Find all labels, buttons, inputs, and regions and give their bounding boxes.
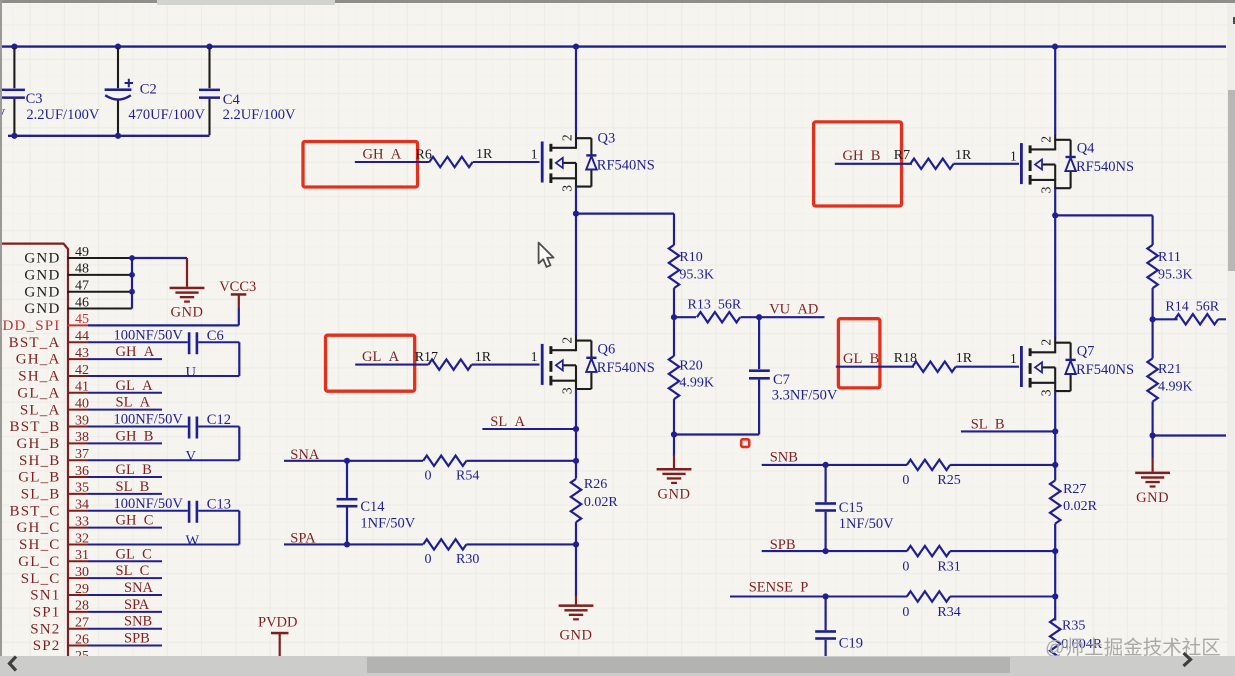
wire SNB row [762, 464, 907, 466]
svg-text:33: 33 [75, 514, 89, 529]
wire net stub pin 43 [88, 358, 162, 360]
resistor R35 [1050, 597, 1103, 662]
capacitor C14 [337, 461, 416, 545]
node R35 top [1052, 593, 1058, 599]
svg-text:GL C: GL C [116, 546, 152, 562]
wire capacitor bottom rail [8, 135, 210, 137]
wire GH_A to R6 [355, 161, 430, 163]
svg-text:GH A: GH A [116, 344, 155, 360]
wire net stub pin 35 [88, 493, 162, 495]
svg-text:95.3K: 95.3K [679, 268, 714, 283]
wire R26 bottom to ground [575, 522, 577, 544]
svg-text:0.02R: 0.02R [1063, 499, 1098, 514]
wire net stub pin 41 [88, 392, 162, 394]
wire R30 to R26 bottom node [466, 543, 576, 545]
svg-text:GH B: GH B [843, 148, 881, 164]
wire R21 bottom to right edge [1153, 434, 1226, 436]
svg-text:2: 2 [1039, 136, 1054, 143]
svg-text:R26: R26 [584, 477, 607, 492]
node divider B [1150, 316, 1156, 322]
svg-text:C19: C19 [839, 636, 863, 652]
wire R11 to divider node B [1151, 288, 1153, 319]
resistor R14 [1153, 299, 1226, 324]
resistor R25 [902, 460, 960, 489]
svg-text:GH_C: GH_C [17, 520, 61, 536]
pin 37 SH_B [19, 447, 89, 469]
pin 43 GH_A [16, 346, 89, 368]
svg-text:RF540NS: RF540NS [597, 158, 655, 174]
node R21 bottom [1150, 432, 1156, 438]
svg-text:SH_A: SH_A [18, 369, 60, 385]
svg-text:GH B: GH B [116, 428, 154, 444]
bottom scrollbar thumb [367, 657, 1010, 673]
svg-text:GND: GND [24, 267, 60, 283]
svg-text:SL B: SL B [971, 417, 1005, 433]
svg-text:1: 1 [531, 349, 538, 364]
svg-text:RF540NS: RF540NS [1076, 159, 1134, 175]
svg-text:SL B: SL B [116, 479, 150, 495]
pin 45 VDD_SPI [0, 312, 89, 334]
wire SNA row [284, 460, 423, 462]
resistor R10 [669, 245, 714, 288]
pin 36 GL_B [18, 464, 89, 486]
svg-text:1R: 1R [476, 147, 493, 162]
svg-text:4.99K: 4.99K [679, 376, 714, 391]
svg-text:GL B: GL B [843, 351, 879, 367]
svg-text:100NF/50V: 100NF/50V [114, 496, 184, 512]
pin 44 BST_A [9, 329, 89, 351]
resistor R21 [1147, 319, 1192, 435]
wire GL_A to R17 [355, 364, 428, 366]
svg-text:SL A: SL A [116, 395, 151, 411]
svg-text:SL A: SL A [490, 414, 525, 430]
bottom scrollbar right arrow [1176, 650, 1200, 670]
bottom scrollbar track [0, 656, 1235, 676]
pin 48 GND [24, 262, 131, 284]
svg-text:R10: R10 [679, 250, 702, 265]
svg-text:C7: C7 [773, 372, 790, 388]
svg-text:V: V [186, 449, 197, 465]
wire net stub SL_B [961, 430, 1055, 432]
node R20 bottom [671, 431, 677, 437]
svg-text:GL B: GL B [116, 462, 152, 478]
svg-text:1NF/50V: 1NF/50V [360, 516, 415, 532]
svg-text:0: 0 [425, 469, 432, 484]
svg-text:44: 44 [75, 329, 89, 344]
svg-text:R7: R7 [894, 148, 910, 163]
wire GH_B to R7 [835, 163, 912, 165]
left window edge [0, 0, 2, 656]
node top rail / C3 [11, 44, 17, 50]
svg-text:Q7: Q7 [1077, 344, 1095, 360]
capacitor C2 (polarized) [105, 48, 206, 135]
pin 29 SN1 [30, 582, 89, 604]
svg-text:35: 35 [75, 481, 89, 496]
pin 42 SH_A [18, 363, 89, 385]
wire R17 to Q6 gate [472, 364, 540, 366]
svg-text:29: 29 [75, 582, 89, 597]
svg-text:C15: C15 [839, 500, 863, 516]
annotation box GL_B [838, 319, 880, 388]
svg-text:3.3NF/50V: 3.3NF/50V [772, 387, 838, 403]
pin 32 SH_C [19, 531, 89, 553]
svg-text:2: 2 [559, 337, 574, 344]
right scrollbar thumb [1228, 90, 1235, 271]
node R27 bottom [1052, 548, 1058, 554]
svg-text:R35: R35 [1062, 619, 1085, 634]
node bottom rail / C3 [11, 133, 17, 139]
node divider A [671, 314, 677, 320]
wire SENSE_P row [730, 595, 907, 597]
node SNB / C15 [823, 462, 829, 468]
wire R21 bottom to ground [1151, 436, 1153, 472]
svg-text:GL A: GL A [362, 349, 400, 365]
svg-text:0: 0 [902, 473, 909, 488]
svg-text:SNA: SNA [124, 580, 154, 596]
svg-text:3: 3 [559, 387, 574, 394]
capacitor C15 [815, 465, 894, 551]
svg-text:C2: C2 [140, 82, 157, 98]
wire divider node to R13 [674, 316, 696, 318]
capacitor C19 [815, 597, 863, 657]
node R26 bottom [573, 541, 579, 547]
annotation box GH_A [303, 142, 418, 188]
capacitor C7 [749, 317, 838, 434]
svg-text:0.02R: 0.02R [584, 495, 619, 510]
annotation box GH_B [814, 122, 902, 206]
svg-text:VDD_SPI: VDD_SPI [0, 318, 61, 334]
node top rail / Q3 drain [573, 44, 579, 50]
resistor R27 [1050, 480, 1098, 523]
resistor R54 [423, 456, 479, 484]
svg-text:R31: R31 [937, 559, 960, 574]
svg-text:GND: GND [171, 305, 204, 321]
svg-text:R11: R11 [1158, 250, 1181, 265]
svg-text:31: 31 [75, 548, 89, 563]
svg-text:4.99K: 4.99K [1158, 380, 1193, 395]
svg-text:BST_C: BST_C [9, 503, 60, 519]
svg-text:SH_C: SH_C [19, 537, 60, 553]
node phase A [573, 211, 579, 217]
wire pins GND to ground symbol [132, 258, 187, 287]
svg-text:30: 30 [75, 565, 89, 580]
svg-text:1R: 1R [475, 350, 492, 365]
svg-text:100NF/50V: 100NF/50V [114, 327, 184, 343]
transistor Q4 [1010, 134, 1134, 193]
node top rail / C2 [115, 44, 121, 50]
wire pin 44 to capacitor C6 [88, 341, 188, 343]
wire capacitor C13 to pin 32 [88, 511, 239, 545]
power port PVDD [258, 614, 297, 656]
node SENSE_P / C19 [823, 593, 829, 599]
wire R6 to Q3 gate [473, 161, 540, 163]
svg-text:W: W [186, 533, 200, 549]
svg-text:41: 41 [75, 380, 89, 395]
resistor R6 [416, 147, 494, 167]
pin 31 GL_C [18, 548, 89, 570]
wire capacitor C12 to pin 37 [88, 427, 239, 461]
svg-text:Q3: Q3 [598, 131, 616, 147]
svg-text:0: 0 [425, 552, 432, 567]
wire pin 39 to capacitor C12 [88, 426, 188, 428]
svg-text:SL_A: SL_A [20, 402, 61, 418]
wire pin 34 to capacitor C13 [88, 510, 188, 512]
svg-text:SENSE P: SENSE P [749, 580, 809, 596]
svg-text:GND: GND [658, 486, 691, 502]
pin 46 GND [24, 295, 131, 317]
wire Q6 source down [575, 389, 577, 479]
resistor R34 [902, 591, 960, 620]
wire Q7 source down [1054, 391, 1056, 480]
connector J1 body [0, 244, 68, 676]
wire R31 to R27 bottom node [950, 550, 1055, 552]
node SPA / C14 [344, 541, 350, 547]
capacitor C12 [114, 412, 231, 439]
wire net stub pin 38 [88, 442, 162, 444]
svg-text:GL_C: GL_C [18, 554, 60, 570]
wire net stub pin 28 [88, 611, 162, 613]
node bottom rail / C2 [115, 133, 121, 139]
wire net stub pin 27 [88, 628, 162, 630]
svg-text:R34: R34 [937, 605, 960, 620]
svg-text:26: 26 [75, 632, 89, 647]
svg-text:R13 56R: R13 56R [688, 297, 742, 312]
node VU_AD [756, 314, 762, 320]
wire down to ground symbol [575, 544, 577, 604]
svg-text:2: 2 [1039, 339, 1054, 346]
wire R10 to divider node [673, 288, 675, 317]
node phase B [1052, 212, 1058, 218]
svg-text:37: 37 [75, 447, 89, 462]
resistor R20 [669, 317, 714, 434]
resistor R17 [415, 350, 492, 370]
pin 35 SL_B [21, 481, 89, 503]
svg-text:SH_B: SH_B [19, 453, 60, 469]
svg-text:R6: R6 [416, 147, 432, 162]
svg-text:SPA: SPA [124, 597, 150, 613]
svg-text:3: 3 [559, 185, 574, 192]
svg-text:40: 40 [75, 396, 89, 411]
resistor R11 [1147, 245, 1192, 288]
svg-text:2.2UF/100V: 2.2UF/100V [26, 107, 99, 123]
top scrollbar thumb [157, 0, 335, 5]
resistor R31 [902, 546, 960, 574]
svg-text:R17: R17 [415, 350, 438, 365]
node pin 48 junction [129, 272, 135, 278]
wire Q3 source to phase node A [575, 186, 577, 213]
pin 41 GL_A [17, 380, 89, 402]
svg-text:36: 36 [75, 464, 89, 479]
wire net stub pin 30 [88, 577, 162, 579]
wire Q4 source to phase node B [1054, 188, 1056, 215]
svg-text:SL_C: SL_C [21, 571, 61, 587]
wire top rail to Q4 drain [1054, 47, 1056, 135]
svg-text:3: 3 [1039, 186, 1054, 193]
node SL_A junction [573, 426, 579, 432]
svg-text:SN2: SN2 [30, 621, 60, 637]
svg-text:SPB: SPB [124, 631, 150, 647]
pin 34 BST_C [9, 498, 89, 520]
wire R18 to Q7 gate [956, 366, 1019, 368]
resistor R18 [894, 351, 973, 372]
wire phase A to R10 [576, 214, 674, 245]
node top rail / Q4 drain [1052, 44, 1058, 50]
svg-text:R18: R18 [894, 351, 917, 366]
svg-text:32: 32 [75, 531, 89, 546]
svg-text:PVDD: PVDD [258, 614, 297, 630]
svg-text:R54: R54 [456, 469, 479, 484]
svg-text:GND: GND [24, 301, 60, 317]
wire net stub VU_AD [759, 316, 824, 318]
svg-text:1: 1 [531, 147, 538, 162]
wire VCC3 to pin 45 [88, 308, 239, 325]
svg-text:39: 39 [75, 413, 89, 428]
svg-text:BST_B: BST_B [9, 419, 60, 435]
wire C7 bottom to R20 bottom [674, 433, 759, 435]
resistor R26 [571, 477, 619, 522]
wire VBUS top rail [0, 45, 1226, 47]
svg-text:RF540NS: RF540NS [1076, 362, 1134, 378]
wire net stub pin 33 [88, 527, 162, 529]
pin 39 BST_B [9, 413, 89, 435]
svg-text:RF540NS: RF540NS [597, 360, 655, 376]
node pin 47 junction [129, 289, 135, 295]
wire SPB row [762, 550, 907, 552]
wire net stub pin 31 [88, 560, 162, 562]
wire to ground phase A divider [673, 435, 675, 469]
wire net stub pin 40 [88, 409, 162, 411]
svg-text:GH C: GH C [116, 513, 154, 529]
wire net stub pin 36 [88, 476, 162, 478]
wire R27 bottom column [1054, 524, 1056, 552]
ground symbol phase A sense [559, 604, 594, 643]
wire GND bus pins 46-49 [131, 258, 132, 309]
svg-text:1R: 1R [956, 351, 973, 366]
wire SPB node to SENSE node [1054, 551, 1056, 596]
pin 30 SL_C [21, 565, 89, 587]
svg-text:R20: R20 [679, 359, 702, 374]
node SNA / C14 [344, 458, 350, 464]
svg-text:2.2UF/100V: 2.2UF/100V [223, 107, 296, 123]
svg-text:R21: R21 [1158, 362, 1181, 377]
svg-text:GH A: GH A [363, 146, 402, 162]
svg-text:1: 1 [1010, 351, 1017, 366]
svg-text:C3: C3 [26, 91, 43, 107]
svg-text:BST_A: BST_A [9, 335, 61, 351]
svg-text:0: 0 [902, 559, 909, 574]
svg-text:SL_B: SL_B [21, 487, 61, 503]
capacitor C6 [114, 327, 224, 354]
wire net stub SL_A [482, 428, 576, 430]
wire phase node B to Q7 drain [1054, 215, 1056, 337]
ground symbol phase B divider [1135, 472, 1170, 506]
wire net stub pin 26 [88, 645, 162, 647]
svg-text:1: 1 [1010, 148, 1017, 163]
pin 47 GND [24, 279, 131, 301]
svg-text:R30: R30 [456, 552, 479, 567]
svg-text:38: 38 [75, 430, 89, 445]
svg-text:GND: GND [1136, 490, 1169, 506]
bottom scrollbar left arrow [0, 653, 30, 676]
svg-text:SN1: SN1 [30, 588, 60, 604]
svg-text:R25: R25 [937, 473, 960, 488]
pin 38 GH_B [17, 430, 89, 452]
svg-text:1R: 1R [955, 148, 972, 163]
svg-text:GND: GND [560, 628, 593, 644]
svg-text:47: 47 [75, 279, 89, 294]
wire SPA row [284, 543, 423, 545]
svg-text:SP2: SP2 [33, 638, 61, 654]
svg-text:Q4: Q4 [1077, 141, 1095, 157]
svg-text:SP1: SP1 [33, 604, 61, 620]
svg-text:GND: GND [24, 284, 60, 300]
svg-text:VCC3: VCC3 [219, 279, 256, 295]
right scrollbar track [1227, 3, 1235, 656]
svg-text:48: 48 [75, 262, 89, 277]
power port VCC3 [219, 279, 256, 308]
svg-text:100NF/50V: 100NF/50V [114, 412, 184, 428]
svg-text:49: 49 [75, 245, 89, 260]
partial plates of off-screen capacitor [0, 90, 5, 98]
wire phase B to R11 [1055, 215, 1152, 245]
svg-text:R27: R27 [1063, 482, 1086, 497]
svg-text:GND: GND [24, 251, 60, 267]
pin 26 SP2 [33, 632, 89, 654]
svg-text:470UF/100V: 470UF/100V [128, 107, 205, 123]
capacitor C13 [114, 496, 231, 523]
wire capacitor C6 to pin 42 [88, 342, 239, 376]
pin 49 GND [24, 245, 131, 267]
svg-text:34: 34 [75, 498, 89, 513]
resistor R30 [423, 539, 479, 567]
svg-text:C4: C4 [223, 92, 241, 108]
pin 28 SP1 [33, 599, 89, 621]
ground symbol near connector [170, 287, 205, 321]
pin 27 SN2 [30, 616, 89, 638]
wire R7 to Q4 gate [954, 163, 1019, 165]
annotation box GL_A [326, 335, 415, 391]
ground symbol phase A divider [657, 468, 692, 502]
wire R25 to R27 node [950, 464, 1055, 466]
svg-text:GH_B: GH_B [17, 436, 61, 452]
svg-text:Q6: Q6 [598, 341, 616, 357]
wire top rail to Q3 drain [575, 47, 577, 133]
node SPB / C15 [823, 548, 829, 554]
svg-text:45: 45 [75, 312, 89, 327]
resistor R13 [688, 297, 742, 322]
pin 40 SL_A [20, 396, 89, 418]
svg-text:SNB: SNB [770, 450, 798, 466]
node pin 49 junction [129, 255, 135, 261]
svg-text:1NF/50V: 1NF/50V [839, 516, 894, 532]
svg-text:C14: C14 [360, 499, 385, 515]
svg-text:GL_A: GL_A [17, 385, 60, 401]
svg-text:95.3K: 95.3K [1158, 268, 1193, 283]
svg-text:0: 0 [902, 605, 909, 620]
node R26 top [573, 458, 579, 464]
wire R34 to R35 column [950, 595, 1055, 597]
wire GL_B to R18 [836, 366, 914, 368]
svg-text:46: 46 [75, 295, 89, 310]
wire R13 to VU_AD node [741, 316, 760, 318]
svg-text:GL_B: GL_B [18, 470, 60, 486]
wire phase node A to Q6 drain [575, 214, 577, 336]
annotation marker small red square [741, 439, 749, 447]
pin 33 GH_C [17, 514, 89, 536]
svg-text:3: 3 [1039, 389, 1054, 396]
capacitor C4 [199, 48, 296, 135]
wire R54 to R26 node [466, 460, 576, 462]
